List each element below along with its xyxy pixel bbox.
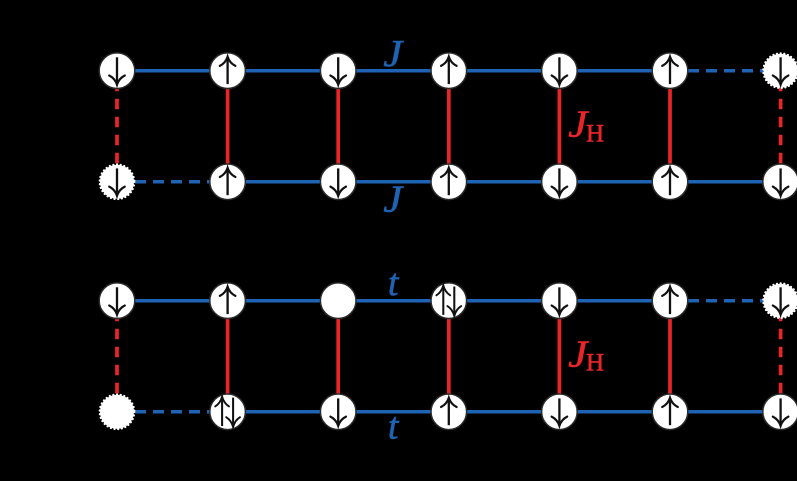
wire b-top t chain dashed 6-7: [670, 299, 781, 303]
site b-bot-5 (dn): [542, 394, 578, 430]
wire a-top J chain solid: [117, 69, 670, 73]
site a-bot-3 (dn): [320, 164, 356, 200]
wire a-bottom J chain solid: [228, 180, 781, 184]
wire a rung2 JH: [226, 71, 230, 182]
wire b-bottom t chain solid: [228, 410, 781, 414]
site b-bot-7 (dn): [763, 394, 797, 430]
site b-top-6 (up): [652, 283, 688, 319]
site a-bot-4 (up): [431, 164, 467, 200]
wire a rung7 JH dashed: [779, 71, 783, 182]
wire b rung5 JH: [558, 301, 562, 412]
site b-bot-4 (up): [431, 394, 467, 430]
site b-top-3 (hole): [320, 283, 356, 319]
label JH (ladder a): [568, 104, 604, 148]
site a-bot-1 (dn, fuzzy edge): [100, 165, 135, 200]
wire b-top t chain solid: [117, 299, 670, 303]
svg-text:H: H: [586, 350, 604, 377]
site b-top-7 (dn, fuzzy edge): [763, 283, 797, 318]
wire a-bottom J chain dashed 1-2: [117, 180, 228, 184]
site b-bot-6 (up): [652, 394, 688, 430]
svg-text:J: J: [383, 179, 404, 221]
wire a rung5 JH: [558, 71, 562, 182]
wire b rung3 JH: [336, 301, 340, 412]
site b-top-5 (dn): [542, 283, 578, 319]
site b-bot-2 (ud): [210, 394, 246, 430]
wire a rung4 JH: [447, 71, 451, 182]
site b-top-2 (up): [210, 283, 246, 319]
site b-top-4 (ud): [431, 283, 467, 319]
site a-top-3 (dn): [320, 53, 356, 89]
site a-top-6 (up): [652, 53, 688, 89]
svg-text:J: J: [383, 33, 404, 75]
wire a rung1 JH dashed: [115, 71, 119, 182]
wire b rung1 JH dashed: [115, 301, 119, 412]
wire b rung6 JH: [668, 301, 672, 412]
wire a rung3 JH: [336, 71, 340, 182]
svg-text:t: t: [388, 405, 400, 447]
wire b rung2 JH: [226, 301, 230, 412]
site a-bot-5 (dn): [542, 164, 578, 200]
site a-top-2 (up): [210, 53, 246, 89]
wire b rung7 JH dashed: [779, 301, 783, 412]
svg-text:H: H: [586, 120, 604, 147]
label JH (ladder b): [568, 334, 604, 377]
wire b rung4 JH: [447, 301, 451, 412]
svg-text:t: t: [388, 262, 400, 304]
wire b-bottom t chain dashed 1-2: [117, 410, 228, 414]
site b-top-1 (dn): [99, 283, 135, 319]
wire a rung6 JH: [668, 71, 672, 182]
site a-bot-2 (up): [210, 164, 246, 200]
site a-top-5 (dn): [542, 53, 578, 89]
site b-bot-3 (dn): [320, 394, 356, 430]
site a-bot-7 (dn): [763, 164, 797, 200]
site a-top-4 (up): [431, 53, 467, 89]
site a-top-7 (dn, fuzzy edge): [763, 53, 797, 88]
site a-top-1 (dn): [99, 53, 135, 89]
site b-bot-1 (hole, fuzzy edge): [100, 395, 135, 430]
wire a-top J chain dashed 6-7: [670, 69, 781, 73]
site a-bot-6 (up): [652, 164, 688, 200]
